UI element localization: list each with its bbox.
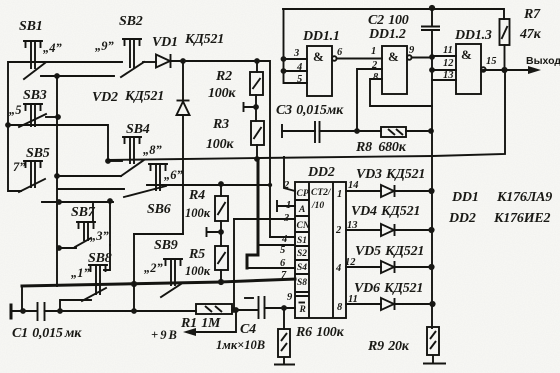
capacitor C3 terminal bar: [281, 124, 283, 138]
svg-text:SB2: SB2: [119, 14, 143, 29]
svg-text:SB8: SB8: [88, 251, 112, 266]
svg-text:DD2: DD2: [307, 165, 335, 180]
resistor R7: [500, 19, 510, 45]
wire CP row: [284, 157, 295, 191]
wire C3 left: [282, 130, 315, 132]
counter DD2: [295, 182, 346, 318]
diode VD4: [381, 224, 431, 236]
pushbutton SB3: [19, 104, 46, 127]
wire x22 down to C1: [21, 286, 23, 310]
wire SB7 bar to y202: [92, 204, 94, 222]
svg-text:VD3 КД521: VD3 КД521: [356, 167, 425, 182]
svg-text:„1”: „1”: [71, 266, 91, 280]
svg-text:12: 12: [345, 257, 356, 268]
pushbutton SB5: [19, 161, 45, 192]
node bus VD5: [428, 264, 434, 270]
node DD1.2 out bus: [429, 54, 435, 60]
svg-text:SB1: SB1: [19, 19, 43, 34]
node SB4 arm x108: [105, 158, 111, 164]
wire DD1.3 inputs: [432, 56, 456, 80]
node C4 right: [281, 305, 287, 311]
svg-text:9: 9: [287, 292, 293, 303]
svg-text:13: 13: [443, 70, 454, 81]
svg-text:3: 3: [283, 213, 289, 224]
svg-text:„8”: „8”: [143, 143, 163, 157]
bold wire S8 row to DD2: [221, 279, 295, 282]
svg-text:R7: R7: [523, 7, 541, 22]
node C3-R8: [354, 128, 360, 134]
wire SB1 output y76: [41, 75, 114, 77]
svg-text:100к: 100к: [185, 264, 211, 278]
wire x135 down: [133, 234, 135, 310]
wire +9V stub: [187, 310, 236, 332]
svg-text:47к: 47к: [519, 27, 542, 42]
wire R2 link: [256, 61, 257, 159]
gate DD1.2: [382, 46, 412, 94]
resistor R9: [427, 327, 439, 355]
svg-text:4: 4: [335, 263, 341, 274]
svg-text:DD2К176ИЕ2: DD2К176ИЕ2: [448, 211, 551, 226]
svg-text:5: 5: [280, 245, 285, 256]
svg-text:C2 100: C2 100: [368, 13, 409, 28]
svg-text:100к: 100к: [208, 86, 236, 101]
svg-text:R1 1М: R1 1М: [180, 316, 221, 331]
wire SB6 bottom row y185 to CP corner: [147, 184, 270, 186]
ground R6: [274, 357, 295, 365]
resistor R5: [215, 246, 228, 270]
capacitor C3: [315, 121, 320, 143]
svg-text:SB3: SB3: [23, 88, 47, 103]
node left column SB3: [5, 122, 11, 128]
resistor R4: [215, 196, 228, 221]
node SB1 out: [54, 73, 60, 79]
bold wire y285 bottom keys: [22, 282, 221, 286]
node R4 top: [218, 181, 224, 187]
svg-text:„4”: „4”: [43, 41, 63, 55]
wire S4 row y268: [247, 267, 295, 269]
wire SB7 arm node y248: [59, 247, 76, 249]
node R3 bottom: [254, 156, 260, 162]
node y310 x60: [57, 308, 63, 314]
svg-text:1мк×10В: 1мк×10В: [216, 338, 265, 352]
node bus VD6: [429, 301, 435, 307]
wire SB8 arm stub y300: [61, 299, 91, 301]
svg-text:2: 2: [283, 180, 290, 191]
node y310 x135: [131, 308, 137, 314]
node VD1-VD2 junction: [180, 58, 186, 64]
svg-text:C1 0,015 мк: C1 0,015 мк: [12, 326, 82, 341]
wire SB2 to VD1 anode: [143, 61, 156, 63]
wire bottom y310 left: [11, 310, 37, 312]
wire x234 down to bottom: [233, 219, 235, 310]
pushbutton SB1: [24, 41, 45, 79]
svg-text:S1: S1: [297, 236, 307, 246]
gate DD1.3: [456, 44, 486, 94]
node output: [501, 67, 507, 73]
pushbutton SB4: [121, 137, 144, 176]
node R2 top: [254, 58, 260, 64]
svg-text:SB7: SB7: [71, 205, 96, 220]
svg-text:15: 15: [486, 56, 497, 67]
svg-text:2: 2: [371, 60, 378, 71]
node bold x135: [131, 281, 137, 287]
wire R5 bottom link: [220, 270, 222, 282]
diode VD3: [381, 185, 431, 197]
pushbutton SB8: [82, 265, 107, 301]
svg-text:7”: 7”: [13, 160, 26, 174]
ground R9: [423, 355, 446, 364]
diode VD2 vertical: [177, 61, 190, 234]
node R1 right: [233, 307, 239, 313]
wire x110 down: [109, 201, 111, 245]
resistor R3: [251, 121, 264, 145]
resistor R6: [278, 329, 290, 357]
svg-text:СТ2/: СТ2/: [311, 188, 332, 198]
resistor R1: [196, 304, 232, 314]
node x234 bottom: [231, 307, 237, 313]
capacitor C1: [38, 302, 45, 321]
pushbutton SB7: [75, 222, 95, 247]
svg-text:/10: /10: [311, 201, 324, 211]
node SB3 contact: [55, 114, 61, 120]
wire SB5 arm left: [8, 124, 21, 191]
pushbutton SB6: [124, 164, 167, 197]
svg-text:6: 6: [280, 258, 286, 269]
wire DD1.2 pin8 loop: [370, 79, 432, 106]
svg-text:R5: R5: [188, 247, 205, 262]
svg-text:R4: R4: [188, 188, 205, 203]
svg-text:VD2: VD2: [92, 90, 118, 105]
svg-text:+ 9 В: + 9 В: [151, 328, 177, 342]
wire output: [483, 69, 530, 71]
wire R7 bottom: [504, 45, 506, 70]
svg-text:„5: „5: [9, 103, 22, 117]
gate DD1.1: [307, 46, 337, 96]
wire R2-R3 stub terminal: [244, 103, 257, 111]
node y202 x110: [107, 198, 113, 204]
svg-text:CP: CP: [297, 189, 309, 199]
wire DD1.2 out: [412, 57, 432, 59]
right bus vertical: [431, 30, 433, 328]
capacitor C2: [421, 27, 440, 31]
svg-text:VD1: VD1: [152, 35, 178, 50]
wire top keyboard row y62: [8, 62, 122, 124]
svg-text:DD1К176ЛА9: DD1К176ЛА9: [451, 190, 552, 205]
diode VD1: [156, 54, 171, 68]
wire R3 bottom vertical bold: [247, 159, 258, 268]
svg-text:&: &: [461, 47, 472, 62]
wire DD2 out 8: [346, 303, 381, 305]
top rail y9: [283, 9, 504, 19]
node y248: [56, 245, 62, 251]
svg-text:DD1.3: DD1.3: [454, 28, 492, 43]
node bus VD4: [428, 227, 434, 233]
wire SB6 arm row y188: [58, 188, 124, 190]
resistor R2: [250, 72, 263, 95]
arrow +9V: [183, 328, 196, 336]
diode VD5: [381, 261, 431, 273]
svg-text:R2: R2: [215, 69, 232, 84]
wire SB3 contact to x57: [46, 116, 58, 118]
node y202 x59: [56, 199, 62, 205]
capacitor C4: [259, 296, 265, 319]
wire R6 down: [283, 308, 285, 329]
svg-text:100к: 100к: [206, 137, 234, 152]
pushbutton SB9: [161, 259, 182, 297]
wire C4 to DD2 R pin: [265, 307, 296, 309]
wire DD2 out 1: [346, 190, 381, 192]
svg-text:9: 9: [409, 45, 415, 56]
svg-text:КД521: КД521: [184, 32, 224, 47]
svg-text:11: 11: [348, 294, 358, 305]
svg-text:5: 5: [297, 74, 302, 85]
node R2 bottom: [253, 104, 259, 110]
svg-text:8: 8: [337, 302, 343, 313]
svg-text:R3: R3: [212, 117, 229, 132]
svg-text:C3 0,015мк: C3 0,015мк: [276, 103, 344, 118]
wire DD2 out 4: [346, 266, 381, 268]
svg-text:14: 14: [348, 180, 359, 191]
svg-text:S2: S2: [297, 249, 307, 259]
polarity mark C4: [245, 297, 253, 299]
svg-text:VD5 КД521: VD5 КД521: [355, 244, 424, 259]
svg-text:R: R: [299, 305, 306, 315]
node pin3: [281, 56, 287, 62]
node y174: [54, 173, 60, 179]
svg-text:100к: 100к: [185, 206, 211, 220]
vertical bus x57 SB column: [56, 76, 58, 286]
svg-text:R9 20к: R9 20к: [367, 339, 410, 354]
svg-text:1: 1: [371, 46, 376, 57]
wire VD2 to x134 y234: [134, 233, 183, 235]
svg-text:12: 12: [443, 58, 454, 69]
svg-text:S8: S8: [297, 278, 307, 288]
svg-text:1: 1: [286, 200, 291, 211]
node bus VD3: [428, 188, 434, 194]
svg-text:2: 2: [335, 225, 342, 236]
svg-text:4: 4: [296, 62, 302, 73]
wire R1 to C4: [232, 309, 258, 311]
wire R4 link: [220, 221, 222, 246]
wire R4 top link: [220, 184, 222, 196]
wire SB3 row y125 to vertical x108: [8, 125, 108, 161]
svg-text:DD1.2: DD1.2: [368, 27, 406, 42]
wire DD1.1 out: [337, 58, 382, 60]
wire CN row y219: [234, 218, 295, 220]
wire SB4 arm bottom tie y174: [57, 175, 121, 177]
wire R8 right: [406, 130, 431, 132]
wire SB4 arm stub: [108, 160, 122, 162]
svg-text:DD1.1: DD1.1: [302, 29, 340, 44]
wire C2 stub: [431, 9, 433, 26]
node R4 bottom: [218, 229, 224, 235]
svg-text:VD4 КД521: VD4 КД521: [351, 204, 420, 219]
resistor R8: [381, 127, 406, 137]
svg-text:4: 4: [281, 234, 287, 245]
svg-text:6: 6: [337, 47, 343, 58]
svg-text:„2”: „2”: [144, 261, 164, 275]
svg-text:1: 1: [337, 189, 342, 200]
svg-text:„9”: „9”: [95, 39, 115, 53]
wire DD1.2 pin2 riser: [357, 69, 382, 131]
svg-text:&: &: [388, 49, 399, 64]
wire VD1 cathode to R2 top and corner to CP bus: [171, 61, 270, 237]
wire C1 to R1: [45, 310, 197, 312]
pushbutton SB2: [121, 39, 144, 77]
svg-text:SB4: SB4: [126, 122, 150, 137]
node pin4: [281, 68, 287, 74]
svg-text:„6”: „6”: [164, 168, 184, 182]
wire DD2 out 2: [346, 229, 381, 231]
svg-text:SB5: SB5: [26, 146, 50, 161]
node DD1.3 pin12 bus: [429, 67, 435, 73]
node R8 right: [428, 128, 434, 134]
svg-text:Выход: Выход: [526, 55, 560, 67]
svg-text:R6 100к: R6 100к: [295, 325, 345, 340]
svg-text:CN: CN: [297, 221, 311, 231]
wire DD1.1 inputs: [284, 9, 308, 83]
svg-text:3: 3: [293, 48, 299, 59]
node R5 bottom: [218, 279, 224, 285]
svg-text:11: 11: [443, 45, 453, 56]
svg-text:A: A: [298, 205, 305, 215]
svg-text:VD6 КД521: VD6 КД521: [354, 281, 423, 296]
node y185 CP corner: [268, 183, 272, 187]
svg-text:SB9: SB9: [154, 238, 178, 253]
svg-text:КД521: КД521: [124, 89, 164, 104]
wire SB8 bar up: [104, 245, 110, 270]
diode VD6: [381, 298, 432, 310]
arrow output: [528, 66, 541, 74]
svg-text:13: 13: [347, 220, 358, 231]
terminal C1 input bar: [10, 305, 13, 318]
long wire y158 to feedback corner: [108, 70, 505, 160]
svg-text:SB6: SB6: [147, 202, 171, 217]
wire x60 SB8 stub down: [59, 300, 61, 310]
svg-text:7: 7: [281, 270, 287, 281]
node C1 left: [20, 308, 26, 314]
wire C3 to R8: [320, 130, 382, 132]
svg-text:„3”: „3”: [90, 229, 110, 243]
node C2 top: [429, 5, 435, 11]
svg-text:R8 680к: R8 680к: [355, 140, 407, 155]
wire S1 riser: [270, 236, 295, 238]
terminal A pin bar: [277, 201, 295, 211]
wire S2 row y245: [259, 244, 295, 246]
svg-text:8: 8: [373, 72, 379, 83]
svg-text:C4: C4: [240, 322, 256, 337]
wire SB7 top row y202: [42, 201, 113, 203]
svg-text:&: &: [313, 49, 324, 64]
wire R4-R5 stub terminal: [207, 228, 222, 236]
svg-text:S4: S4: [297, 263, 307, 273]
